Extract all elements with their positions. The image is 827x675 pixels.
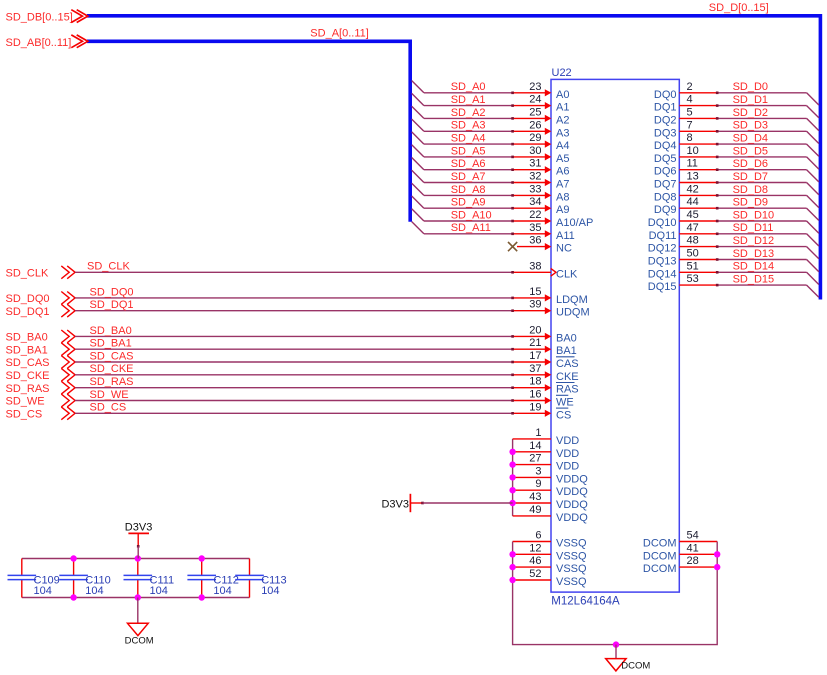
svg-text:WE: WE xyxy=(556,397,574,409)
svg-text:BA0: BA0 xyxy=(556,332,577,344)
svg-text:SD_AB[0..11]: SD_AB[0..11] xyxy=(6,37,72,49)
svg-text:25: 25 xyxy=(529,106,541,118)
pin DCOM (pin 28) of U22: stub and labels xyxy=(643,555,717,575)
svg-text:SD_D10: SD_D10 xyxy=(733,209,775,221)
wire: capacitor bank top rail (D3V3) xyxy=(22,558,250,560)
svg-text:44: 44 xyxy=(687,196,699,208)
svg-text:SD_A8: SD_A8 xyxy=(451,184,486,196)
svg-text:SD_A[0..11]: SD_A[0..11] xyxy=(310,27,369,39)
svg-text:DQ13: DQ13 xyxy=(648,256,677,268)
svg-text:SD_D6: SD_D6 xyxy=(733,158,768,170)
svg-text:SD_A1: SD_A1 xyxy=(451,94,486,106)
pin DQ0 (pin 2) of U22, net SD_D0: stub, wire, bus entry, labels xyxy=(654,81,819,105)
svg-text:SD_CS: SD_CS xyxy=(90,402,127,414)
pin VSSQ (pin 12) of U22: stub and labels xyxy=(513,542,587,562)
svg-text:BA1: BA1 xyxy=(556,345,577,357)
svg-text:U22: U22 xyxy=(552,67,572,79)
svg-text:43: 43 xyxy=(529,491,541,503)
svg-text:30: 30 xyxy=(529,145,541,157)
svg-text:36: 36 xyxy=(529,235,541,247)
svg-text:A5: A5 xyxy=(556,153,569,165)
svg-text:6: 6 xyxy=(535,530,541,542)
svg-text:54: 54 xyxy=(687,530,699,542)
svg-text:SD_D0: SD_D0 xyxy=(733,81,768,93)
svg-text:DQ8: DQ8 xyxy=(654,191,677,203)
pin BA0 (pin 20) of U22, net SD_BA0 from port SD_BA0: port symbol, wire, stub, arrow, labels xyxy=(6,324,577,344)
junction dots on capacitor rails xyxy=(199,555,205,561)
pin A8 (pin 33) of U22, net SD_A8: bus entry, wire, stub, arrow, labels xyxy=(412,183,570,203)
svg-text:SD_DB[0..15]: SD_DB[0..15] xyxy=(6,11,73,23)
svg-text:53: 53 xyxy=(687,273,699,285)
svg-text:SD_BA1: SD_BA1 xyxy=(6,344,48,356)
pin DQ12 (pin 48) of U22, net SD_D12: stub, wire, bus entry, labels xyxy=(648,235,819,259)
svg-text:VDDQ: VDDQ xyxy=(556,486,588,498)
svg-text:SD_D14: SD_D14 xyxy=(733,261,775,273)
svg-text:SD_WE: SD_WE xyxy=(90,389,129,401)
svg-text:VDDQ: VDDQ xyxy=(556,512,588,524)
svg-text:41: 41 xyxy=(687,542,699,554)
svg-text:DQ0: DQ0 xyxy=(654,89,677,101)
svg-text:UDQM: UDQM xyxy=(556,307,590,319)
svg-text:SD_D[0..15]: SD_D[0..15] xyxy=(709,2,769,14)
svg-text:SD_D13: SD_D13 xyxy=(733,248,775,260)
wire: capacitor bank bottom rail (DCOM) xyxy=(22,597,250,599)
pin DQ10 (pin 45) of U22, net SD_D10: stub, wire, bus entry, labels xyxy=(648,209,819,233)
junction dot on VDD tie bar row 29 xyxy=(509,461,515,467)
svg-text:32: 32 xyxy=(529,171,541,183)
pin VDD (pin 27) of U22: stub and labels xyxy=(513,453,580,473)
svg-text:18: 18 xyxy=(529,376,541,388)
svg-text:47: 47 xyxy=(687,222,699,234)
power symbol D3V3 feeding VDDQ pin 43 xyxy=(381,494,423,512)
svg-text:VDDQ: VDDQ xyxy=(556,499,588,511)
svg-text:45: 45 xyxy=(687,209,699,221)
svg-text:SD_D4: SD_D4 xyxy=(733,133,768,145)
svg-text:17: 17 xyxy=(529,350,541,362)
svg-text:DQ2: DQ2 xyxy=(654,114,677,126)
pin RAS (pin 18) of U22, net SD_RAS from port SD_RAS: port symbol, wire, stub, arrow, labels xyxy=(6,376,579,396)
svg-text:21: 21 xyxy=(529,337,541,349)
pin DQ4 (pin 8) of U22, net SD_D4: stub, wire, bus entry, labels xyxy=(654,132,819,156)
svg-text:SD_D7: SD_D7 xyxy=(733,171,768,183)
svg-text:SD_D15: SD_D15 xyxy=(733,274,775,286)
pin VDD (pin 1) of U22: stub and labels xyxy=(513,427,580,447)
svg-text:38: 38 xyxy=(529,260,541,272)
pin DQ7 (pin 13) of U22, net SD_D7: stub, wire, bus entry, labels xyxy=(654,171,819,195)
wire: D3V3 stem to top rail xyxy=(137,546,139,558)
pin DQ9 (pin 44) of U22, net SD_D9: stub, wire, bus entry, labels xyxy=(654,196,819,220)
svg-text:SD_A2: SD_A2 xyxy=(451,107,486,119)
svg-text:SD_CKE: SD_CKE xyxy=(6,370,50,382)
svg-text:DCOM: DCOM xyxy=(643,563,677,575)
svg-text:20: 20 xyxy=(529,324,541,336)
pin DQ3 (pin 7) of U22, net SD_D3: stub, wire, bus entry, labels xyxy=(654,119,819,143)
svg-text:SD_CAS: SD_CAS xyxy=(6,357,50,369)
pin A7 (pin 32) of U22, net SD_A7: bus entry, wire, stub, arrow, labels xyxy=(412,170,570,190)
svg-text:SD_A11: SD_A11 xyxy=(451,222,491,234)
svg-text:A1: A1 xyxy=(556,102,569,114)
svg-text:DQ15: DQ15 xyxy=(648,281,677,293)
svg-text:SD_DQ1: SD_DQ1 xyxy=(6,306,50,318)
svg-text:A10/AP: A10/AP xyxy=(556,217,593,229)
svg-text:SD_A10: SD_A10 xyxy=(451,209,492,221)
svg-text:DQ7: DQ7 xyxy=(654,179,677,191)
pin A1 (pin 24) of U22, net SD_A1: bus entry, wire, stub, arrow, labels xyxy=(412,93,570,113)
svg-text:15: 15 xyxy=(529,286,541,298)
pin UDQM (pin 39) of U22, net SD_DQ1 from port SD_DQ1: port symbol, wire, stub, arrow, labels xyxy=(6,299,590,319)
pin VDDQ (pin 3) of U22: stub and labels xyxy=(513,465,589,485)
svg-text:28: 28 xyxy=(687,555,699,567)
svg-text:SD_D9: SD_D9 xyxy=(733,197,768,209)
pin A9 (pin 34) of U22, net SD_A9: bus entry, wire, stub, arrow, labels xyxy=(412,196,570,216)
svg-text:SD_CKE: SD_CKE xyxy=(90,363,134,375)
svg-text:SD_D11: SD_D11 xyxy=(733,222,774,234)
pin A6 (pin 31) of U22, net SD_A6: bus entry, wire, stub, arrow, labels xyxy=(412,158,570,178)
svg-text:VDD: VDD xyxy=(556,461,579,473)
pin DCOM (pin 41) of U22: stub and labels xyxy=(643,542,717,562)
svg-text:10: 10 xyxy=(687,145,699,157)
svg-text:34: 34 xyxy=(529,196,541,208)
svg-text:CLK: CLK xyxy=(556,268,578,280)
svg-text:22: 22 xyxy=(529,209,541,221)
svg-text:12: 12 xyxy=(529,542,541,554)
power symbol D3V3 above capacitor bank xyxy=(125,522,153,548)
wire: VDD/VDDQ vertical tie bar left of U22 xyxy=(512,439,514,516)
pin A5 (pin 30) of U22, net SD_A5: bus entry, wire, stub, arrow, labels xyxy=(412,145,570,165)
svg-text:SD_D8: SD_D8 xyxy=(733,184,768,196)
wire: VSSQ/DCOM ground return loop under U22 xyxy=(513,542,718,645)
bus SD_DB[0..15] (data bus, top, turns down at right into SD_D bus) xyxy=(87,16,821,300)
svg-text:A0: A0 xyxy=(556,89,569,101)
svg-text:D3V3: D3V3 xyxy=(125,522,153,534)
svg-text:SD_RAS: SD_RAS xyxy=(6,383,50,395)
capacitor C109 104 xyxy=(8,559,60,598)
junction dot on VDD tie bar row 31 xyxy=(509,487,515,493)
svg-text:SD_DQ0: SD_DQ0 xyxy=(6,293,50,305)
svg-text:27: 27 xyxy=(529,453,541,465)
pin DQ2 (pin 5) of U22, net SD_D2: stub, wire, bus entry, labels xyxy=(654,106,819,130)
ground symbol DCOM under U22 xyxy=(606,645,651,672)
svg-text:SD_RAS: SD_RAS xyxy=(90,376,134,388)
port SD_AB[0..11] off-page connector xyxy=(6,35,88,49)
svg-text:104: 104 xyxy=(150,585,168,597)
pin DQ6 (pin 11) of U22, net SD_D6: stub, wire, bus entry, labels xyxy=(654,158,819,182)
svg-text:CAS: CAS xyxy=(556,358,579,370)
svg-text:SD_A6: SD_A6 xyxy=(451,158,486,170)
svg-text:39: 39 xyxy=(529,299,541,311)
pin DQ1 (pin 4) of U22, net SD_D1: stub, wire, bus entry, labels xyxy=(654,94,819,118)
svg-text:CS: CS xyxy=(556,409,571,421)
svg-text:SD_D3: SD_D3 xyxy=(733,120,768,132)
pin VDDQ (pin 49) of U22: stub and labels xyxy=(513,504,589,524)
svg-text:50: 50 xyxy=(687,248,699,260)
svg-text:SD_D12: SD_D12 xyxy=(733,235,775,247)
capacitor C111 104 xyxy=(124,559,175,598)
ground symbol DCOM below capacitor bank xyxy=(125,598,154,647)
svg-text:42: 42 xyxy=(687,183,699,195)
svg-text:51: 51 xyxy=(687,260,699,272)
svg-text:SD_A4: SD_A4 xyxy=(451,133,486,145)
svg-text:SD_D2: SD_D2 xyxy=(733,107,768,119)
capacitor C110 104 xyxy=(59,559,110,598)
svg-text:VSSQ: VSSQ xyxy=(556,538,587,550)
svg-text:VSSQ: VSSQ xyxy=(556,576,587,588)
wire D3V3 to VDD tie bar xyxy=(423,502,513,504)
svg-text:DQ3: DQ3 xyxy=(654,127,677,139)
pin LDQM (pin 15) of U22, net SD_DQ0 from port SD_DQ0: port symbol, wire, stub, arrow, labels xyxy=(6,286,588,306)
svg-text:SD_BA0: SD_BA0 xyxy=(6,332,48,344)
junction dot on VSSQ tie bar row 38 xyxy=(509,577,515,583)
junction dot on DCOM tie bar row 36 xyxy=(714,551,720,557)
pin A10/AP (pin 22) of U22, net SD_A10: bus entry, wire, stub, arrow, labels xyxy=(412,209,594,229)
pin BA1 (pin 21) of U22, net SD_BA1 from port SD_BA1: port symbol, wire, stub, arrow, labels xyxy=(6,337,577,357)
svg-text:35: 35 xyxy=(529,222,541,234)
svg-text:14: 14 xyxy=(529,440,541,452)
svg-text:13: 13 xyxy=(687,171,699,183)
svg-text:DQ9: DQ9 xyxy=(654,204,677,216)
svg-text:1: 1 xyxy=(535,427,541,439)
pin A11 (pin 35) of U22, net SD_A11: bus entry, wire, stub, arrow, labels xyxy=(412,222,575,242)
svg-text:SD_CAS: SD_CAS xyxy=(90,350,134,362)
svg-text:11: 11 xyxy=(687,158,698,170)
svg-text:48: 48 xyxy=(687,235,699,247)
svg-text:SD_CLK: SD_CLK xyxy=(87,261,130,273)
svg-text:4: 4 xyxy=(687,94,693,106)
svg-text:D3V3: D3V3 xyxy=(381,499,409,511)
svg-text:DCOM: DCOM xyxy=(643,550,677,562)
capacitor C112 104 xyxy=(187,559,238,598)
svg-text:33: 33 xyxy=(529,183,541,195)
svg-text:7: 7 xyxy=(687,119,693,131)
svg-text:DQ1: DQ1 xyxy=(654,102,677,114)
svg-text:DQ5: DQ5 xyxy=(654,153,677,165)
svg-text:RAS: RAS xyxy=(556,384,579,396)
svg-text:SD_BA1: SD_BA1 xyxy=(90,338,132,350)
junction dot on VDD tie bar row 28 xyxy=(509,449,515,455)
pin A4 (pin 29) of U22, net SD_A4: bus entry, wire, stub, arrow, labels xyxy=(412,132,570,152)
svg-text:DQ12: DQ12 xyxy=(648,243,677,255)
svg-text:M12L64164A: M12L64164A xyxy=(551,595,620,607)
pin DQ15 (pin 53) of U22, net SD_D15: stub, wire, bus entry, labels xyxy=(648,273,819,297)
junction dot on VSSQ tie bar row 37 xyxy=(509,564,515,570)
svg-text:VSSQ: VSSQ xyxy=(556,563,587,575)
svg-text:104: 104 xyxy=(213,585,231,597)
svg-text:A6: A6 xyxy=(556,166,569,178)
svg-text:A3: A3 xyxy=(556,127,569,139)
svg-text:2: 2 xyxy=(687,81,693,93)
svg-text:31: 31 xyxy=(529,158,541,170)
svg-text:37: 37 xyxy=(529,363,541,375)
svg-text:A7: A7 xyxy=(556,179,569,191)
pin CS (pin 19) of U22, net SD_CS from port SD_CS: port symbol, wire, stub, arrow, labels xyxy=(6,401,572,421)
svg-text:104: 104 xyxy=(261,585,279,597)
svg-text:SD_CS: SD_CS xyxy=(6,409,43,421)
junction dots on capacitor rails xyxy=(135,555,141,561)
pin DQ14 (pin 51) of U22, net SD_D14: stub, wire, bus entry, labels xyxy=(648,260,819,284)
svg-text:DQ10: DQ10 xyxy=(648,217,677,229)
svg-text:49: 49 xyxy=(529,504,541,516)
port SD_DB[0..15] off-page connector xyxy=(6,10,88,24)
svg-text:5: 5 xyxy=(687,106,693,118)
svg-text:DQ4: DQ4 xyxy=(654,140,677,152)
svg-text:SD_A3: SD_A3 xyxy=(451,120,486,132)
svg-text:A11: A11 xyxy=(556,230,575,242)
svg-text:NC: NC xyxy=(556,243,572,255)
svg-text:DCOM: DCOM xyxy=(125,635,154,646)
pin CKE (pin 37) of U22, net SD_CKE from port SD_CKE: port symbol, wire, stub, arrow, labels xyxy=(6,363,579,383)
pin DQ5 (pin 10) of U22, net SD_D5: stub, wire, bus entry, labels xyxy=(654,145,819,169)
svg-text:VDD: VDD xyxy=(556,435,579,447)
svg-text:A4: A4 xyxy=(556,140,569,152)
svg-text:DCOM: DCOM xyxy=(621,660,650,671)
pin VSSQ (pin 46) of U22: stub and labels xyxy=(513,555,587,575)
pin VDD (pin 14) of U22: stub and labels xyxy=(513,440,580,460)
svg-text:8: 8 xyxy=(687,132,693,144)
svg-text:52: 52 xyxy=(529,568,541,580)
pin DQ8 (pin 42) of U22, net SD_D8: stub, wire, bus entry, labels xyxy=(654,183,819,207)
svg-text:SD_A9: SD_A9 xyxy=(451,197,486,209)
svg-text:SD_A0: SD_A0 xyxy=(451,81,486,93)
junction dot on VDD tie bar row 30 xyxy=(509,474,515,480)
svg-text:SD_BA0: SD_BA0 xyxy=(90,325,132,337)
bus SD_AB[0..11] (address bus, turns down at x=410) xyxy=(87,41,410,222)
pin A3 (pin 26) of U22, net SD_A3: bus entry, wire, stub, arrow, labels xyxy=(412,119,570,139)
pin NC (pin 36) of U22 with no-connect X xyxy=(508,235,572,255)
svg-text:16: 16 xyxy=(529,389,541,401)
svg-text:104: 104 xyxy=(85,585,103,597)
pin CLK (pin 38) of U22, net SD_CLK from port: wire, open clock arrow xyxy=(6,260,579,280)
svg-text:VDDQ: VDDQ xyxy=(556,473,588,485)
svg-text:DCOM: DCOM xyxy=(643,538,677,550)
svg-text:26: 26 xyxy=(529,119,541,131)
pin VSSQ (pin 6) of U22: stub and labels xyxy=(513,530,587,550)
pin A2 (pin 25) of U22, net SD_A2: bus entry, wire, stub, arrow, labels xyxy=(412,106,570,126)
svg-text:SD_CLK: SD_CLK xyxy=(6,268,49,280)
junction dot at ground stem on bottom wire xyxy=(613,641,619,647)
svg-text:SD_D5: SD_D5 xyxy=(733,145,768,157)
pin VDDQ (pin 43) of U22: stub and labels xyxy=(513,491,589,511)
pin CAS (pin 17) of U22, net SD_CAS from port SD_CAS: port symbol, wire, stub, arrow, labels xyxy=(6,350,579,370)
svg-text:SD_A5: SD_A5 xyxy=(451,145,486,157)
svg-text:SD_DQ0: SD_DQ0 xyxy=(90,286,134,298)
svg-text:3: 3 xyxy=(535,465,541,477)
svg-text:SD_WE: SD_WE xyxy=(6,396,45,408)
svg-text:DQ6: DQ6 xyxy=(654,166,677,178)
pin VDDQ (pin 9) of U22: stub and labels xyxy=(513,478,589,498)
junction dot on DCOM tie bar row 37 xyxy=(714,564,720,570)
svg-text:29: 29 xyxy=(529,132,541,144)
capacitor C113 104 xyxy=(235,559,286,598)
svg-text:104: 104 xyxy=(34,585,52,597)
svg-text:19: 19 xyxy=(529,401,541,413)
svg-text:A9: A9 xyxy=(556,204,569,216)
pin DCOM (pin 54) of U22: stub and labels xyxy=(643,530,717,550)
svg-text:A2: A2 xyxy=(556,114,569,126)
pin DQ11 (pin 47) of U22, net SD_D11: stub, wire, bus entry, labels xyxy=(649,222,819,246)
svg-text:9: 9 xyxy=(535,478,541,490)
pin VSSQ (pin 52) of U22: stub and labels xyxy=(513,568,587,588)
svg-text:LDQM: LDQM xyxy=(556,294,588,306)
junction dot on VDD tie bar row 32 xyxy=(509,500,515,506)
junction dot on VSSQ tie bar row 36 xyxy=(509,551,515,557)
svg-text:SD_DQ1: SD_DQ1 xyxy=(90,299,134,311)
svg-text:23: 23 xyxy=(529,81,541,93)
svg-text:24: 24 xyxy=(529,94,541,106)
pin A0 (pin 23) of U22, net SD_A0: bus entry, wire, stub, arrow, labels xyxy=(412,81,570,101)
svg-text:A8: A8 xyxy=(556,191,569,203)
svg-text:VSSQ: VSSQ xyxy=(556,550,587,562)
svg-text:DQ14: DQ14 xyxy=(648,268,677,280)
svg-text:SD_D1: SD_D1 xyxy=(733,94,768,106)
svg-text:DQ11: DQ11 xyxy=(649,230,677,242)
svg-text:CKE: CKE xyxy=(556,371,579,383)
junction dots on capacitor rails xyxy=(70,555,76,561)
pin DQ13 (pin 50) of U22, net SD_D13: stub, wire, bus entry, labels xyxy=(648,248,819,272)
IC U22 body (M12L64164A SDRAM) xyxy=(551,67,679,607)
svg-text:46: 46 xyxy=(529,555,541,567)
pin WE (pin 16) of U22, net SD_WE from port SD_WE: port symbol, wire, stub, arrow, labels xyxy=(6,389,574,409)
svg-text:SD_A7: SD_A7 xyxy=(451,171,486,183)
svg-text:VDD: VDD xyxy=(556,448,579,460)
